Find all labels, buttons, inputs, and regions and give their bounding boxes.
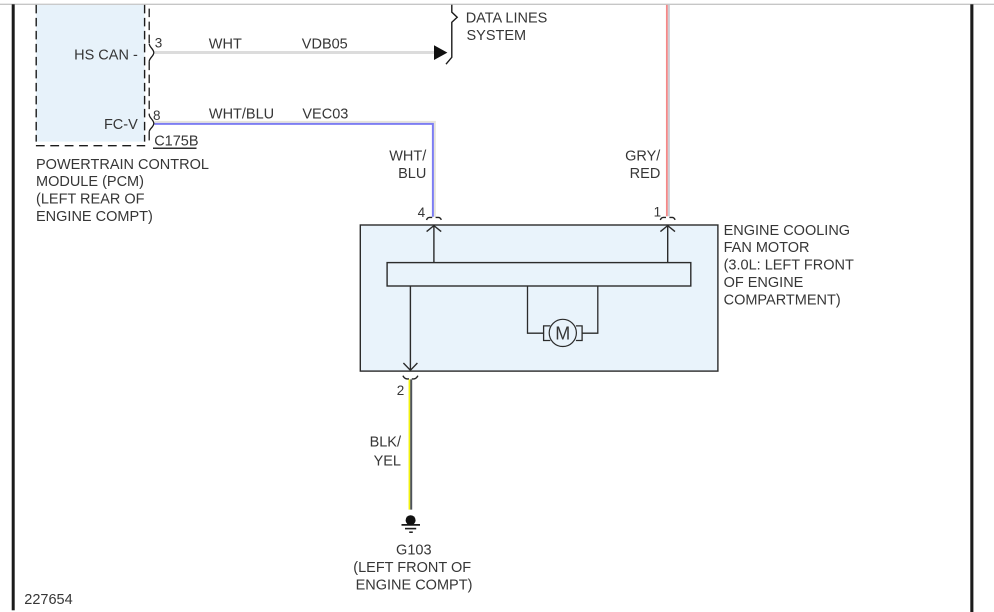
svg-text:WHT/BLU: WHT/BLU xyxy=(209,107,274,123)
motor branch left wire xyxy=(528,286,544,333)
svg-text:1: 1 xyxy=(654,204,662,219)
motor M1 circle xyxy=(549,319,576,346)
pin 4 connector hat xyxy=(427,217,442,220)
internal arrow at pin 4 xyxy=(427,226,442,263)
engine cooling fan motor box xyxy=(360,225,718,371)
internal down arrow to pin 2 xyxy=(403,286,417,370)
pin 1 connector hat xyxy=(660,217,675,220)
svg-text:HS CAN -: HS CAN - xyxy=(74,47,138,63)
svg-text:FC-V: FC-V xyxy=(104,117,138,133)
PCM box dashed right edge xyxy=(144,5,146,142)
svg-text:ENGINE COOLING: ENGINE COOLING xyxy=(724,223,851,239)
svg-text:SYSTEM: SYSTEM xyxy=(467,28,527,44)
svg-text:(LEFT REAR OF: (LEFT REAR OF xyxy=(36,192,145,208)
motor brush left bracket xyxy=(544,326,551,341)
frame top border xyxy=(0,3,994,5)
svg-text:G103: G103 xyxy=(396,543,431,559)
frame left bar xyxy=(12,4,15,610)
svg-text:3: 3 xyxy=(155,35,163,50)
wire WHT/BLU VEC03 (pin 8): blue stripe xyxy=(155,124,433,217)
svg-text:BLU: BLU xyxy=(398,166,426,182)
svg-text:COMPARTMENT): COMPARTMENT) xyxy=(724,292,841,308)
system brace xyxy=(446,5,457,64)
svg-text:ENGINE COMPT): ENGINE COMPT) xyxy=(356,578,473,594)
arrow to data lines system xyxy=(434,45,447,60)
PCM box dashed left edge xyxy=(35,5,37,142)
PCM box fill xyxy=(36,5,144,142)
svg-text:2: 2 xyxy=(397,383,405,398)
wire WHT VDB05 (pin 3) xyxy=(155,51,436,54)
wire BLK/YEL: black stripe xyxy=(410,379,412,509)
svg-text:VDB05: VDB05 xyxy=(302,37,348,53)
wire GRY/RED (pin 1): gray stripe xyxy=(668,5,670,216)
svg-text:C175B: C175B xyxy=(154,133,198,149)
inner bus rectangle xyxy=(387,263,691,286)
svg-text:POWERTRAIN CONTROL: POWERTRAIN CONTROL xyxy=(36,157,209,173)
motor branch right wire xyxy=(582,286,598,333)
wire WHT/BLU VEC03 (pin 8): white stripe xyxy=(155,122,435,217)
ground G103 symbol xyxy=(402,524,421,526)
svg-text:VEC03: VEC03 xyxy=(302,107,348,123)
wire GRY/RED (pin 1): red stripe xyxy=(666,5,668,216)
connector C175B bracket line with pin bumps xyxy=(148,9,150,44)
svg-text:DATA LINES: DATA LINES xyxy=(466,11,548,27)
svg-text:(3.0L: LEFT FRONT: (3.0L: LEFT FRONT xyxy=(724,258,854,274)
motor brush right bracket xyxy=(576,326,582,341)
svg-text:BLK/: BLK/ xyxy=(370,434,402,450)
svg-text:M: M xyxy=(555,323,570,343)
svg-text:4: 4 xyxy=(418,205,426,220)
internal arrow at pin 1 xyxy=(660,226,675,263)
svg-text:(LEFT FRONT OF: (LEFT FRONT OF xyxy=(353,560,471,576)
PCM box dashed bottom edge xyxy=(36,145,145,147)
pin 2 connector hat (below box) xyxy=(403,376,418,379)
wire BLK/YEL: yellow stripe xyxy=(408,379,410,509)
svg-text:ENGINE COMPT): ENGINE COMPT) xyxy=(36,209,153,225)
svg-text:YEL: YEL xyxy=(374,453,401,469)
svg-text:MODULE (PCM): MODULE (PCM) xyxy=(36,174,144,190)
frame right bar xyxy=(970,4,973,612)
svg-text:227654: 227654 xyxy=(24,592,72,608)
svg-text:WHT/: WHT/ xyxy=(389,149,427,165)
svg-text:GRY/: GRY/ xyxy=(625,149,661,165)
svg-text:RED: RED xyxy=(630,166,661,182)
svg-text:WHT: WHT xyxy=(209,37,242,53)
svg-text:FAN MOTOR: FAN MOTOR xyxy=(724,240,810,256)
svg-text:OF ENGINE: OF ENGINE xyxy=(724,275,804,291)
